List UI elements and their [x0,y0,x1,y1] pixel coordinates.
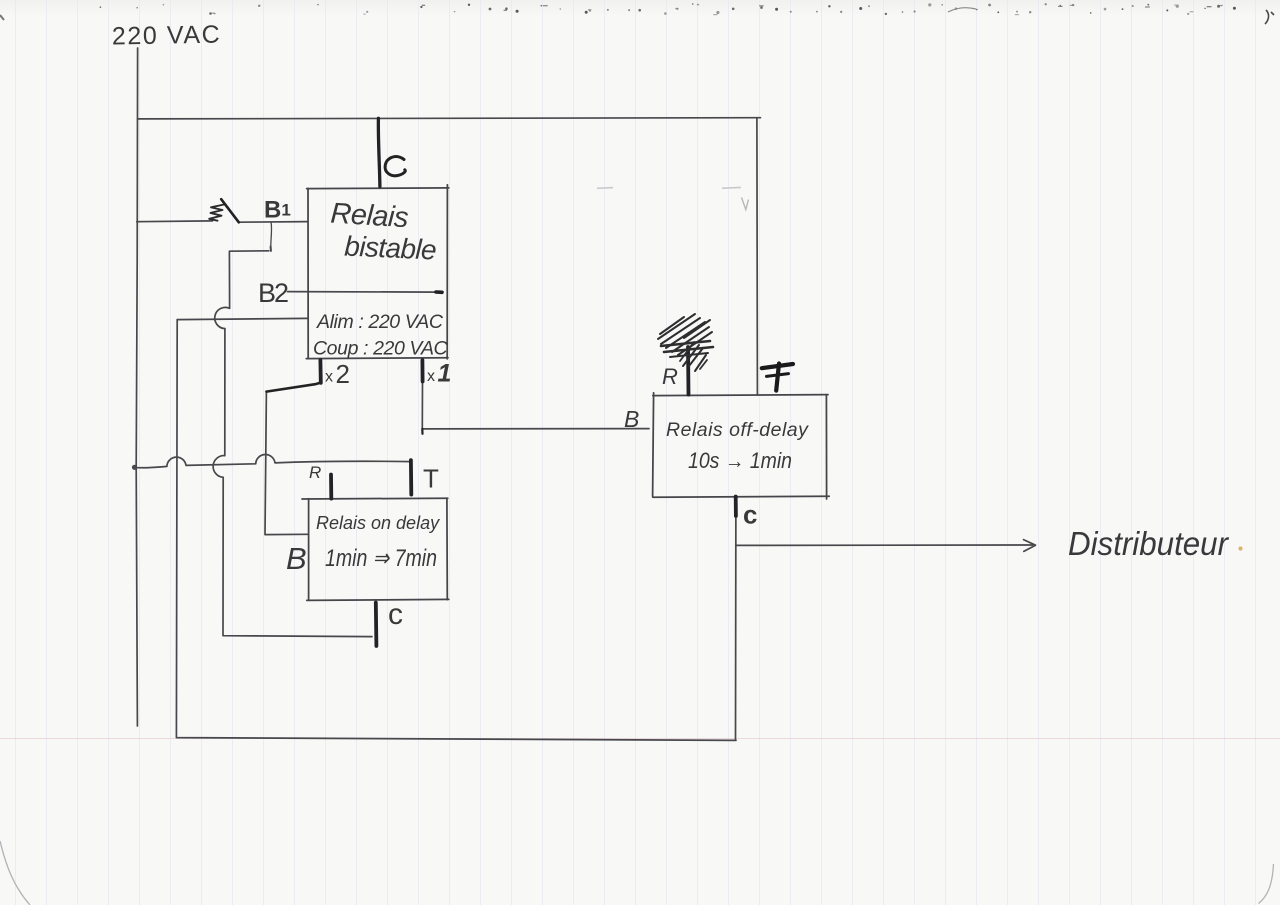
svg-text:1: 1 [438,360,452,388]
svg-text:Relais off-delay: Relais off-delay [666,419,809,441]
svg-text:220 VAC: 220 VAC [112,21,222,51]
svg-text:bistable: bistable [344,231,437,266]
svg-text:c: c [743,500,757,530]
svg-text:B: B [624,406,639,432]
svg-text:Alim : 220 VAC: Alim : 220 VAC [316,311,444,333]
svg-text:2: 2 [336,359,350,389]
svg-text:Coup : 220 VAC: Coup : 220 VAC [313,338,449,360]
svg-text:B1: B1 [264,197,291,224]
svg-text:Relais: Relais [330,198,409,235]
svg-text:x: x [325,369,333,386]
svg-text:x: x [427,368,435,385]
svg-text:c: c [388,598,403,631]
svg-text:R: R [309,463,321,482]
svg-text:10s → 1min: 10s → 1min [688,448,792,473]
svg-text:T: T [423,464,439,494]
svg-text:Distributeur: Distributeur [1068,525,1230,562]
svg-text:B2: B2 [258,278,288,308]
svg-text:1min ⇒ 7min: 1min ⇒ 7min [325,545,437,572]
svg-text:R: R [662,364,678,389]
svg-text:Relais on delay: Relais on delay [316,513,440,533]
svg-text:B: B [286,541,307,576]
